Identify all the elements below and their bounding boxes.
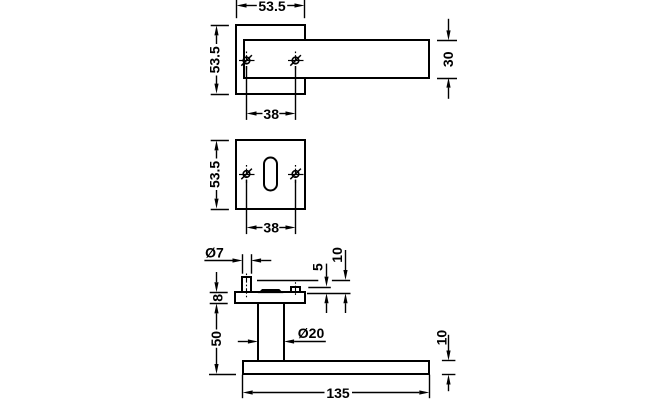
dimension 135 length <box>243 375 430 400</box>
right stud centerline <box>295 282 297 296</box>
fixing point left (middle view) <box>239 165 255 183</box>
lever bar (top view) <box>244 40 429 78</box>
dimension 5 <box>310 263 329 313</box>
rose plate (side view) <box>235 292 305 303</box>
svg-text:Ø20: Ø20 <box>298 325 325 341</box>
left stud centerline <box>246 274 248 298</box>
svg-text:10: 10 <box>433 330 449 346</box>
extension line stud top <box>257 280 350 282</box>
dimension 50 <box>208 313 236 374</box>
fixing point left (top view) <box>239 52 255 70</box>
lever bar (side view) <box>243 361 429 374</box>
svg-text:10: 10 <box>329 247 345 263</box>
keyhole slot <box>264 158 277 191</box>
svg-text:38: 38 <box>263 219 279 235</box>
svg-text:135: 135 <box>326 385 350 400</box>
extension line plate top <box>307 293 351 295</box>
dimension Ø20 neck <box>238 325 326 344</box>
svg-text:53.5: 53.5 <box>258 0 285 14</box>
dimension 38 hole spacing (middle view) <box>247 180 296 236</box>
dimension 8 plate thickness <box>209 272 227 313</box>
neck (side view) <box>258 303 284 361</box>
dimension 53.5 height (top view) <box>206 25 229 94</box>
svg-text:38: 38 <box>263 106 279 122</box>
svg-text:5: 5 <box>310 263 326 271</box>
fixing point right (middle view) <box>288 165 304 183</box>
fixing point right (top view) <box>288 52 304 70</box>
dimension 38 hole spacing (top view) <box>247 66 296 122</box>
svg-text:50: 50 <box>208 331 224 347</box>
svg-text:53.5: 53.5 <box>206 161 222 188</box>
svg-text:Ø7: Ø7 <box>205 245 224 261</box>
rose plate square (top view) <box>236 25 305 94</box>
svg-text:8: 8 <box>209 294 225 302</box>
right screw stud (side view) <box>291 287 300 292</box>
dimension 10 stud height <box>329 247 348 313</box>
dimension Ø7 stud <box>204 245 271 274</box>
dimension 53.5 height (middle view) <box>206 140 229 209</box>
dimension 30 bar width (top view) <box>437 19 457 99</box>
left screw stud (side view) <box>242 277 251 292</box>
dimension 53.5 width (top view) <box>237 0 305 18</box>
bearing boss (filled) <box>259 290 282 293</box>
dimension 10 bar thickness <box>433 330 455 392</box>
key rose square (middle view) <box>236 140 305 209</box>
svg-text:30: 30 <box>440 51 456 67</box>
extension line right stud top <box>308 287 331 289</box>
svg-text:53.5: 53.5 <box>206 46 222 73</box>
